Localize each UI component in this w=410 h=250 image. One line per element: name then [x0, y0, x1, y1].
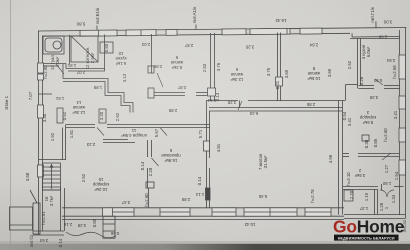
svg-text:2.85: 2.85	[306, 102, 315, 107]
svg-text:прихожая: прихожая	[161, 153, 181, 158]
wall below rooms 13-12	[43, 63, 67, 65]
windows: bottom wall	[38, 55, 406, 216]
windows: right wall	[399, 55, 406, 79]
room6/room8 wall	[277, 33, 279, 102]
kitchen10/room9 wall	[151, 34, 153, 73]
svg-text:1.14: 1.14	[195, 192, 204, 197]
corridor3/room2 wall	[343, 153, 349, 155]
room14 top stepped wall	[63, 79, 133, 113]
outer wall: top (tilted like photo)	[38, 21, 407, 40]
boiler diagonal	[71, 36, 98, 62]
svg-text:6.45: 6.45	[258, 194, 267, 199]
sheet border line	[10, 0, 12, 246]
hall8/corridor15 wall	[147, 140, 149, 157]
svg-text:2.64: 2.64	[309, 42, 318, 47]
svg-text:2.89: 2.89	[181, 197, 190, 202]
svg-text:h=2.78: h=2.78	[310, 189, 315, 203]
rooms 6-8 bottom wall	[206, 100, 238, 102]
dark pier room7 west	[206, 188, 211, 200]
svg-text:0.14: 0.14	[197, 176, 202, 185]
room9/room6 wall	[210, 33, 212, 101]
svg-text:31.5м²: 31.5м²	[263, 155, 268, 168]
door swing room16	[30, 190, 37, 203]
svg-text:10.5м²: 10.5м²	[307, 76, 320, 81]
boiler room east wall	[104, 35, 106, 72]
bathtub	[43, 36, 98, 62]
room2/tambour wall	[343, 186, 378, 188]
room16 right wall	[60, 188, 62, 231]
svg-text:3.69: 3.69	[327, 68, 332, 77]
left porch	[10, 190, 117, 238]
radiator marks bottom right	[344, 190, 353, 201]
GoHome logo	[333, 216, 405, 240]
middle porch steps	[103, 216, 115, 238]
corridor3 stub wall	[362, 135, 369, 141]
room7 west wall	[206, 101, 208, 208]
photo lighting unevenness	[0, 0, 1, 1]
outer wall: right	[399, 30, 401, 215]
ground wavy line	[66, 232, 116, 238]
svg-text:4.81: 4.81	[216, 143, 221, 152]
svg-text:жилая: жилая	[307, 71, 320, 76]
bottom-right annex bottom wall	[344, 214, 406, 216]
right annex kitchen4 walls	[350, 38, 400, 40]
windows: left wall	[38, 63, 44, 73]
room9 bottom wall	[154, 92, 185, 94]
small flue box	[100, 42, 113, 53]
bottom shadow band	[0, 244, 410, 250]
svg-text:3.58: 3.58	[25, 172, 30, 181]
hall mid wall	[148, 188, 150, 208]
svg-text:4.96: 4.96	[328, 154, 333, 163]
svg-text:16.42: 16.42	[275, 18, 287, 23]
outer wall: bottom	[62, 207, 344, 209]
svg-text:16.8м²: 16.8м²	[164, 158, 177, 163]
outer wall: left	[38, 31, 40, 236]
room16 top	[43, 189, 61, 191]
staircase	[43, 163, 61, 190]
svg-text:0.14: 0.14	[140, 161, 145, 170]
stairs room walls	[65, 125, 67, 161]
svg-text:15: 15	[98, 177, 103, 182]
small furniture boxes room14	[57, 108, 353, 201]
tambour west wall	[374, 190, 376, 215]
wall toilet/boiler divider	[69, 35, 71, 64]
closet11 walls	[66, 124, 95, 126]
tambour door arcs	[56, 64, 394, 197]
niche line room14	[39, 93, 53, 95]
room7 east wall	[338, 101, 340, 215]
svg-text:10.42: 10.42	[244, 222, 255, 227]
svg-text:2.28: 2.28	[148, 167, 153, 176]
left annex bottom wall	[33, 230, 64, 232]
room7 top wall	[209, 107, 342, 109]
